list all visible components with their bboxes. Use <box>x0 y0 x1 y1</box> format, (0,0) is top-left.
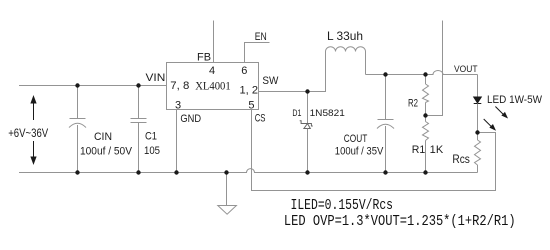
svg-text:100uf / 35V: 100uf / 35V <box>335 145 384 157</box>
ground symbol <box>218 173 237 215</box>
wire SW pin 1,2 <box>259 52 326 92</box>
wire top rail VIN <box>19 85 167 87</box>
svg-text:1N5821: 1N5821 <box>310 108 345 119</box>
IC U1 XL4001 box <box>167 63 259 110</box>
svg-text:6: 6 <box>241 65 247 77</box>
diode D1 1N5821 <box>300 92 313 173</box>
input voltage arrow +6V-36V <box>31 97 36 164</box>
svg-text:5: 5 <box>248 100 254 112</box>
svg-text:+6V~36V: +6V~36V <box>8 126 48 140</box>
svg-text:VIN: VIN <box>146 72 166 84</box>
inductor L1 coil <box>326 47 366 75</box>
resistor R1 <box>423 116 429 173</box>
wire EN pin 6 <box>245 43 270 63</box>
svg-text:1K: 1K <box>430 144 444 156</box>
LED D2 symbol <box>474 97 482 133</box>
svg-text:FB: FB <box>197 51 211 63</box>
svg-text:COUT: COUT <box>344 133 368 145</box>
svg-text:C1: C1 <box>145 131 157 143</box>
svg-text:VOUT: VOUT <box>454 64 478 75</box>
resistor Rcs <box>475 133 481 173</box>
wire OVP feedback line <box>426 21 443 116</box>
capacitor COUT <box>377 75 394 173</box>
LED emission arrows <box>484 107 507 130</box>
svg-text:1, 2: 1, 2 <box>240 85 259 97</box>
svg-text:R1: R1 <box>412 144 426 156</box>
wire bottom ground rail (hop over CS line) <box>19 169 478 173</box>
svg-text:L 33uh: L 33uh <box>327 29 363 43</box>
svg-text:7, 8: 7, 8 <box>170 80 189 92</box>
capacitor CIN <box>69 86 86 173</box>
svg-text:4: 4 <box>209 65 215 77</box>
svg-text:3: 3 <box>175 100 181 112</box>
capacitor C1 <box>131 86 147 173</box>
svg-text:105: 105 <box>144 145 160 157</box>
svg-text:GND: GND <box>180 113 201 125</box>
svg-text:100uf / 50V: 100uf / 50V <box>80 146 133 158</box>
svg-text:EN: EN <box>255 31 267 43</box>
wire CS pin 5 sense loop <box>252 110 496 191</box>
svg-text:SW: SW <box>262 75 279 87</box>
resistor R2 <box>423 75 429 116</box>
LED branch wire <box>477 75 479 98</box>
wire FB pin 4 <box>213 21 215 63</box>
junction node dots <box>75 72 479 174</box>
svg-text:D1: D1 <box>292 108 301 119</box>
svg-text:LED 1W-5W: LED 1W-5W <box>487 94 543 106</box>
svg-text:ILED=0.155V/Rcs: ILED=0.155V/Rcs <box>291 197 394 214</box>
wire GND pin 3 <box>176 110 178 173</box>
svg-text:CIN: CIN <box>94 131 112 143</box>
svg-text:CS: CS <box>255 112 266 124</box>
wire VOUT rail (hop over OVP line) <box>366 71 478 75</box>
svg-text:XL4001: XL4001 <box>195 80 231 92</box>
svg-text:LED OVP=1.3*VOUT=1.235*(1+R2/R: LED OVP=1.3*VOUT=1.235*(1+R2/R1) <box>284 213 516 230</box>
svg-text:Rcs: Rcs <box>452 152 470 166</box>
svg-text:R2: R2 <box>408 98 418 110</box>
